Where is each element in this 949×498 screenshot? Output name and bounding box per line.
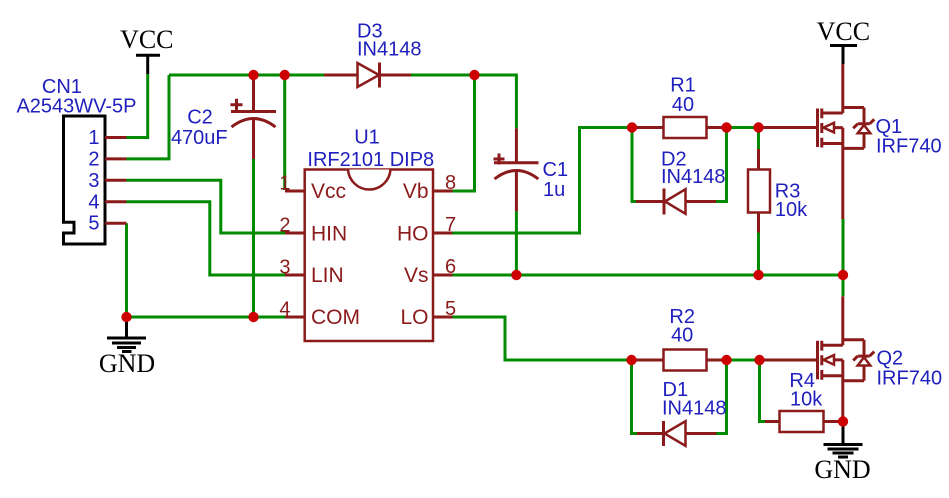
diode D3 xyxy=(324,63,411,88)
svg-text:Vb: Vb xyxy=(403,180,429,203)
svg-text:7: 7 xyxy=(445,214,456,236)
diode D1 xyxy=(637,421,717,446)
junction top rail Vcc drop xyxy=(280,70,290,80)
svg-text:C1: C1 xyxy=(543,159,569,181)
wire HO to R1 xyxy=(453,128,633,234)
transistor Q2 xyxy=(760,296,875,421)
svg-text:470uF: 470uF xyxy=(171,127,228,149)
U1 pin names xyxy=(311,180,429,329)
wire Q1 source to Vs xyxy=(842,219,845,275)
svg-text:U1: U1 xyxy=(354,127,380,149)
svg-text:2: 2 xyxy=(88,148,99,170)
wire CN1 pin4 to LIN xyxy=(127,202,287,275)
junction R2 left xyxy=(626,355,636,365)
svg-text:1u: 1u xyxy=(543,179,565,201)
svg-text:10k: 10k xyxy=(790,389,823,411)
wire CN1 pin5 to ground xyxy=(125,223,128,317)
svg-text:3: 3 xyxy=(88,170,99,192)
junction Vs Q1 source xyxy=(838,270,848,280)
svg-text:IRF2101 DIP8: IRF2101 DIP8 xyxy=(307,149,434,171)
wire CN1 pin2 to top rail xyxy=(127,75,170,159)
resistor R4 xyxy=(765,411,843,432)
svg-text:4: 4 xyxy=(279,298,290,320)
svg-text:10k: 10k xyxy=(775,199,808,221)
wire IC Vcc drop xyxy=(283,75,286,190)
wire top rail left segment xyxy=(169,74,324,77)
op-amp U1 IC body xyxy=(285,170,453,342)
junction Q2 gate node xyxy=(754,355,764,365)
junction top rail Vb xyxy=(469,70,479,80)
wire Q2 drain from Vs xyxy=(842,275,845,296)
svg-text:6: 6 xyxy=(445,256,456,278)
junction COM C2 xyxy=(248,312,258,322)
svg-text:5: 5 xyxy=(445,298,456,320)
junction ground node left xyxy=(121,312,131,322)
svg-text:4: 4 xyxy=(88,191,99,213)
ground GND right xyxy=(814,422,870,485)
wire CN1 pin3 to HIN xyxy=(127,180,287,233)
svg-text:Vcc: Vcc xyxy=(311,180,346,203)
wire D1 right xyxy=(717,360,727,434)
power flag VCC right xyxy=(817,17,870,64)
diode D2 xyxy=(636,189,716,215)
junction R2 right xyxy=(721,355,731,365)
connector CN1 xyxy=(64,116,127,244)
svg-text:IN4148: IN4148 xyxy=(662,398,727,420)
svg-text:A2543WV-5P: A2543WV-5P xyxy=(16,96,136,118)
wire R4 drop xyxy=(760,360,766,422)
wire COM line xyxy=(127,316,287,319)
svg-text:IRF740: IRF740 xyxy=(877,368,943,390)
junction Q2 source ground xyxy=(838,416,848,426)
svg-text:LO: LO xyxy=(400,306,428,329)
svg-text:1: 1 xyxy=(88,127,99,149)
svg-text:IRF740: IRF740 xyxy=(876,136,942,158)
svg-text:COM: COM xyxy=(311,306,360,329)
svg-text:2: 2 xyxy=(279,214,290,236)
svg-text:Q2: Q2 xyxy=(877,348,904,370)
resistor R1 xyxy=(632,117,727,138)
wire top rail right segment xyxy=(411,75,516,128)
svg-text:Vs: Vs xyxy=(404,264,429,287)
svg-text:40: 40 xyxy=(672,94,694,116)
svg-text:CN1: CN1 xyxy=(42,76,82,98)
wire LO to R2 xyxy=(453,317,632,360)
transistor Q1 xyxy=(759,64,875,219)
wire C1 bottom xyxy=(515,211,518,275)
wire D2 right xyxy=(716,128,727,202)
svg-text:IN4148: IN4148 xyxy=(661,166,726,188)
wire Vb to top rail xyxy=(453,75,475,191)
svg-text:40: 40 xyxy=(671,325,693,347)
U1 pin numbers xyxy=(279,172,456,320)
resistor R3 xyxy=(748,149,770,233)
svg-text:LIN: LIN xyxy=(311,264,344,287)
svg-text:GND: GND xyxy=(99,349,155,378)
junction Vs C1 xyxy=(511,270,521,280)
svg-text:HO: HO xyxy=(397,222,429,245)
junction Q1 gate node xyxy=(753,122,763,132)
wire Vs rail xyxy=(453,274,844,277)
wire D2 left xyxy=(632,128,637,202)
junction top rail C2 xyxy=(248,70,258,80)
ground GND left xyxy=(99,317,155,378)
junction R1 right xyxy=(721,122,731,132)
svg-text:GND: GND xyxy=(814,455,870,484)
wire CN1 pin1 to VCC xyxy=(127,74,148,138)
wire C2 bottom xyxy=(252,159,255,317)
svg-text:3: 3 xyxy=(279,256,290,278)
svg-text:C2: C2 xyxy=(187,106,213,128)
wire R3 top xyxy=(757,128,760,150)
svg-text:VCC: VCC xyxy=(120,25,173,54)
power flag VCC left xyxy=(120,25,173,74)
CN1 pin numbers xyxy=(88,127,99,235)
svg-text:IN4148: IN4148 xyxy=(357,38,422,60)
svg-text:1: 1 xyxy=(279,172,290,194)
wire D1 left xyxy=(632,360,638,434)
capacitor C1 xyxy=(494,128,539,211)
wire R2 to gate node xyxy=(727,359,760,362)
capacitor C2 xyxy=(231,76,277,159)
svg-text:Q1: Q1 xyxy=(876,116,903,138)
svg-text:5: 5 xyxy=(88,213,99,235)
junction Vs R3 xyxy=(753,270,763,280)
wire R3 bottom xyxy=(757,233,760,276)
junction R1 left xyxy=(627,122,637,132)
wire R1 to gate node xyxy=(727,126,759,129)
svg-text:VCC: VCC xyxy=(817,17,870,46)
resistor R2 xyxy=(632,350,727,371)
svg-text:8: 8 xyxy=(445,172,456,194)
svg-text:HIN: HIN xyxy=(311,222,347,245)
